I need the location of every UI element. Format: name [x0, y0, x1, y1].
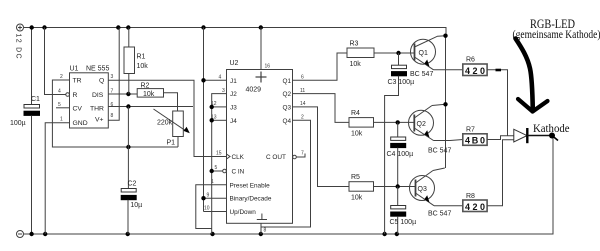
wire C IN stub: [212, 170, 223, 172]
svg-text:Kathode: Kathode: [533, 121, 570, 135]
wire TR pin to timing node: [52, 80, 178, 147]
svg-text:4: 4: [219, 75, 222, 81]
svg-text:Q: Q: [99, 78, 104, 85]
wire J1 to +12 column: [204, 79, 227, 81]
svg-text:100µ: 100µ: [10, 120, 26, 127]
svg-text:11: 11: [300, 88, 305, 94]
potentiometer P1 220k: [154, 109, 190, 147]
svg-text:R5: R5: [351, 174, 360, 181]
svg-text:V+: V+: [95, 117, 104, 124]
svg-text:7: 7: [301, 151, 304, 157]
node LED cathode junction: [549, 133, 555, 139]
svg-text:Q2: Q2: [417, 121, 426, 128]
node C5 junction: [396, 184, 400, 188]
wire Q output to U2 CLK: [108, 80, 227, 156]
node timing junction: [126, 145, 130, 149]
capacitor C5: [390, 187, 417, 235]
svg-text:R: R: [73, 92, 78, 99]
U1 pin labels inside: [73, 78, 105, 128]
svg-text:1: 1: [60, 117, 63, 123]
svg-text:4029: 4029: [246, 87, 262, 94]
node THR junction: [126, 104, 130, 108]
U2 internal ground symbol: [257, 214, 267, 220]
node Q2 collector junction: [443, 102, 447, 106]
svg-text:DIS: DIS: [92, 92, 104, 99]
U1 pin R inversion bubble: [66, 93, 70, 97]
svg-text:R7: R7: [466, 127, 475, 134]
wire R8 to LED: [487, 140, 514, 206]
svg-text:420: 420: [465, 202, 485, 212]
wire Binary/Decade to column: [204, 197, 227, 199]
resistor R3: [347, 41, 374, 69]
wire R4 to Q2 base: [374, 121, 415, 123]
wire +12 collector rail: [445, 36, 447, 168]
tick cathode: [552, 136, 558, 141]
resistor R5: [349, 174, 374, 202]
svg-text:420: 420: [465, 66, 485, 76]
node dots bottom rail: [29, 232, 399, 236]
wire Q2 to R4: [293, 94, 350, 123]
svg-text:Q4: Q4: [283, 118, 292, 125]
wire V+ to +12: [108, 28, 119, 121]
terminal - GND: [17, 231, 24, 238]
svg-text:8: 8: [111, 113, 114, 119]
wire C OUT stub: [296, 154, 305, 158]
node C4 junction: [396, 120, 400, 124]
svg-text:R2: R2: [141, 83, 150, 90]
svg-text:C5 100µ: C5 100µ: [390, 219, 417, 226]
svg-text:10k: 10k: [143, 91, 155, 98]
svg-text:BC 547: BC 547: [428, 148, 451, 155]
resistor R1: [124, 28, 148, 95]
capacitor C3: [385, 53, 415, 234]
wire Q1 to R3: [293, 53, 348, 80]
U2 GND pin 8 stub: [260, 223, 262, 234]
svg-text:5: 5: [58, 102, 61, 108]
wire Q3 emitter to R8: [434, 205, 463, 207]
svg-text:R8: R8: [466, 193, 475, 200]
wire Preset Enable to low column: [196, 185, 227, 229]
svg-text:GND: GND: [73, 120, 88, 127]
resistor R2: [137, 83, 177, 112]
node J4 junction: [210, 118, 214, 122]
wire Up/Down to column: [204, 211, 227, 213]
node Q1 collector junction: [443, 34, 447, 38]
svg-text:6: 6: [111, 102, 114, 108]
svg-text:C2: C2: [128, 181, 137, 188]
node DIS junction: [126, 92, 130, 96]
svg-text:R6: R6: [466, 57, 475, 64]
wire Q1 emitter to R6: [434, 69, 464, 71]
wire R5 to Q3 base: [374, 186, 416, 188]
svg-text:P1: P1: [167, 140, 176, 147]
svg-text:THR: THR: [90, 106, 104, 113]
svg-text:U1: U1: [70, 66, 79, 73]
U2 plus symbol: [256, 72, 267, 83]
wire +12 column down to UpDown: [203, 28, 205, 212]
svg-text:9: 9: [207, 192, 210, 198]
U2 pin numbers: [204, 75, 306, 212]
wire CV stub: [56, 107, 70, 109]
svg-text:C OUT: C OUT: [266, 154, 286, 161]
svg-text:10k: 10k: [350, 61, 362, 68]
svg-text:J3: J3: [230, 104, 237, 111]
svg-text:Q1: Q1: [419, 50, 428, 57]
wire Q3 to R5: [293, 107, 350, 187]
svg-text:6: 6: [301, 75, 304, 81]
transistor Q2: [409, 104, 446, 140]
wire R pin to +12: [45, 28, 66, 95]
wire J2 to low column: [212, 94, 227, 234]
svg-text:14: 14: [300, 101, 306, 107]
wire Q4 loop to ground stub: [261, 120, 311, 227]
svg-text:Preset Enable: Preset Enable: [230, 182, 271, 189]
wire top rail: [24, 28, 446, 36]
svg-text:NE 555: NE 555: [86, 66, 109, 73]
capacitor C4: [387, 122, 414, 186]
svg-text:J2: J2: [230, 91, 237, 98]
op IC U1 NE555 body: [70, 73, 109, 128]
transistor Q3: [410, 168, 445, 206]
transistor Q1: [411, 36, 446, 70]
svg-text:10k: 10k: [351, 195, 363, 202]
svg-text:10: 10: [204, 206, 210, 212]
svg-text:3: 3: [222, 88, 225, 94]
svg-text:Q3: Q3: [283, 104, 292, 111]
svg-text:2: 2: [60, 74, 63, 80]
wire R7 to LED: [487, 136, 514, 140]
svg-text:CV: CV: [73, 106, 83, 113]
svg-text:10µ: 10µ: [130, 202, 142, 209]
annotation arrow hand-drawn: [516, 39, 548, 112]
wire THR to wiper line: [108, 106, 193, 108]
wire Q2 emitter to R7: [434, 140, 451, 142]
svg-text:4B0: 4B0: [465, 136, 485, 146]
svg-text:C IN: C IN: [232, 169, 245, 176]
svg-text:(gemeinsame Kathode): (gemeinsame Kathode): [513, 27, 600, 41]
wire J4 stub: [212, 119, 227, 121]
svg-text:BC 547: BC 547: [428, 211, 451, 218]
wire GND pin to rail: [45, 123, 69, 234]
U2 C IN bubble: [223, 169, 227, 173]
svg-text:3: 3: [111, 74, 114, 80]
resistor R4: [349, 110, 374, 138]
node J3 junction: [210, 105, 214, 109]
svg-text:10k: 10k: [137, 63, 149, 70]
svg-text:C4 100µ: C4 100µ: [387, 151, 414, 158]
svg-text:Q1: Q1: [283, 78, 292, 85]
svg-text:TR: TR: [73, 78, 82, 85]
U2 left pin labels: [230, 78, 272, 216]
U2 C OUT bubble: [293, 155, 297, 159]
node Binary/Decade junction: [201, 196, 205, 200]
svg-text:4: 4: [58, 89, 61, 95]
svg-text:CLK: CLK: [232, 154, 245, 161]
wire J3 stub: [212, 106, 227, 108]
counter IC U2 4029 body: [227, 70, 293, 224]
terminal + 12V: [17, 24, 24, 31]
svg-text:10k: 10k: [351, 131, 363, 138]
svg-text:J1: J1: [230, 78, 237, 85]
U2 CLK chevron: [227, 154, 231, 159]
U2 right pin labels: [266, 78, 291, 161]
U2 V+ pin 16 wire: [260, 28, 262, 70]
LED RGB common cathode: [514, 128, 552, 143]
capacitor C1: [10, 28, 40, 235]
svg-text:R3: R3: [350, 41, 359, 48]
svg-text:J4: J4: [230, 118, 237, 125]
wire THR node down to C2: [127, 107, 129, 189]
resistor R8: [463, 193, 487, 212]
svg-text:C3 100µ: C3 100µ: [388, 79, 415, 86]
svg-text:C1: C1: [31, 96, 40, 103]
svg-text:Q3: Q3: [418, 186, 427, 193]
svg-text:16: 16: [265, 64, 271, 70]
svg-text:BC 547: BC 547: [410, 71, 433, 78]
resistor R6: [463, 57, 487, 76]
node C IN junction: [210, 169, 214, 173]
svg-text:2: 2: [301, 114, 304, 120]
svg-text:Q2: Q2: [283, 91, 292, 98]
node J1 junction: [201, 78, 205, 82]
svg-text:5: 5: [215, 165, 218, 171]
wire R3 to Q1 base: [374, 52, 415, 54]
svg-text:12 DC: 12 DC: [15, 34, 22, 60]
svg-text:U2: U2: [230, 60, 239, 67]
resistor R7: [463, 127, 487, 146]
svg-text:Up/Down: Up/Down: [230, 209, 257, 216]
svg-text:R1: R1: [137, 54, 146, 61]
capacitor C2: [121, 181, 142, 235]
svg-text:15: 15: [216, 151, 222, 157]
node C3 junction: [396, 51, 400, 55]
svg-text:220k: 220k: [157, 120, 173, 127]
svg-text:8: 8: [264, 228, 267, 234]
svg-text:Binary/Decade: Binary/Decade: [230, 196, 272, 203]
wire R6 to LED: [487, 70, 507, 136]
wire DIS to R2 node: [108, 93, 137, 95]
tick mark R6 output: [496, 69, 502, 72]
svg-text:R4: R4: [351, 110, 360, 117]
node dots top rail: [30, 25, 263, 29]
wire bottom rail: [24, 136, 553, 235]
U1 pin numbers: [58, 74, 114, 123]
